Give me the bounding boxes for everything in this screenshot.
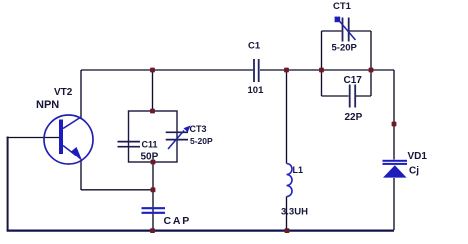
- junction dot bottom rail L1: [285, 228, 290, 233]
- trimmer capacitor CT1: [335, 17, 356, 42]
- junction dot tank top: [150, 109, 155, 114]
- junction dot top rail / L1: [284, 68, 289, 73]
- junction dot right wire: [392, 122, 397, 127]
- wire C17 branch bottom: [322, 95, 372, 97]
- svg-text:VD1: VD1: [408, 151, 428, 162]
- junction dot loop left: [319, 68, 324, 73]
- trimmer capacitor CT3: [166, 126, 191, 150]
- svg-text:101: 101: [248, 85, 265, 96]
- svg-text:C17: C17: [344, 75, 363, 86]
- capacitor C1: [254, 59, 259, 82]
- junction dot emitter node: [151, 187, 156, 192]
- wire top rail: [81, 69, 394, 71]
- wire CAP leads: [152, 190, 154, 230]
- wire tank bottom tap: [152, 162, 154, 190]
- svg-text:VT2: VT2: [54, 87, 73, 98]
- junction dot tank bottom: [151, 160, 156, 165]
- svg-text:5-20P: 5-20P: [190, 136, 213, 146]
- capacitor C11: [118, 142, 141, 147]
- wire collector vertical: [80, 70, 82, 118]
- wire base lead: [7, 137, 59, 139]
- wire CT1/C17 loop right side: [370, 31, 372, 96]
- svg-text:3.3UH: 3.3UH: [281, 207, 308, 218]
- svg-text:L1: L1: [293, 165, 304, 175]
- svg-text:NPN: NPN: [36, 99, 59, 111]
- capacitor CAP: [142, 208, 166, 213]
- svg-text:CAP: CAP: [164, 215, 192, 227]
- junction dot loop right: [369, 68, 374, 73]
- svg-text:C11: C11: [142, 140, 158, 150]
- junction dot bottom rail CAP: [150, 228, 155, 233]
- wire CT1/C17 loop left side: [321, 31, 323, 96]
- varactor diode VD1: [383, 160, 408, 178]
- svg-text:CT1: CT1: [333, 1, 352, 12]
- wire left vertical: [7, 138, 9, 232]
- wire L1 vertical leads: [286, 70, 288, 230]
- svg-text:Cj: Cj: [409, 166, 419, 177]
- transistor VT2: [44, 115, 93, 164]
- svg-text:5-20P: 5-20P: [332, 43, 358, 54]
- inductor L1: [287, 164, 293, 197]
- junction dot top rail / tank: [150, 68, 155, 73]
- wire tank rectangle C11/CT3: [129, 111, 178, 162]
- svg-text:C1: C1: [248, 41, 261, 52]
- wire bottom rail: [7, 230, 394, 232]
- wire CT1 branch top: [322, 30, 372, 32]
- capacitor C17: [350, 85, 356, 108]
- wire emitter vertical: [80, 160, 82, 190]
- wire emitter horizontal: [81, 189, 153, 191]
- svg-text:CT3: CT3: [190, 124, 207, 134]
- svg-text:22P: 22P: [345, 112, 363, 123]
- svg-text:50P: 50P: [141, 152, 159, 163]
- wire right vertical: [393, 70, 395, 230]
- wire tap top rail to tank rectangle: [152, 70, 154, 111]
